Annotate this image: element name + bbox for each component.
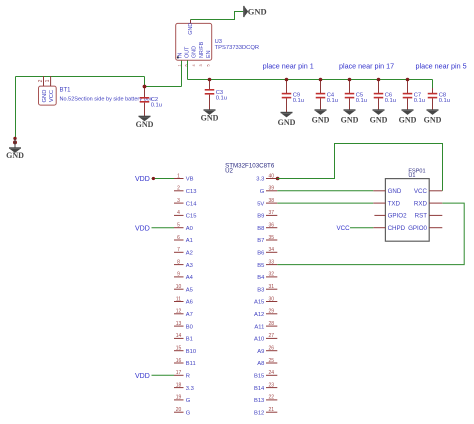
pin 5 A0 bbox=[174, 223, 193, 232]
svg-text:24: 24 bbox=[269, 370, 275, 376]
svg-text:4: 4 bbox=[192, 64, 196, 66]
pin RST bbox=[415, 213, 443, 220]
pin 39 G bbox=[260, 186, 278, 195]
svg-text:U2: U2 bbox=[225, 168, 233, 175]
svg-text:0.1u: 0.1u bbox=[151, 102, 162, 108]
pin 22 B13 bbox=[254, 395, 277, 404]
svg-text:16: 16 bbox=[176, 358, 182, 364]
pin 28 A11 bbox=[254, 321, 277, 330]
svg-text:9: 9 bbox=[177, 272, 180, 278]
svg-text:A11: A11 bbox=[254, 324, 264, 330]
svg-text:A7: A7 bbox=[186, 312, 193, 318]
svg-text:32: 32 bbox=[269, 272, 275, 278]
wire bbox=[16, 76, 145, 78]
capacitor C7 bbox=[403, 80, 425, 111]
pin 17 R bbox=[174, 370, 190, 379]
svg-text:0.1u: 0.1u bbox=[293, 98, 304, 104]
ground bbox=[136, 116, 154, 129]
svg-text:A10: A10 bbox=[254, 337, 264, 343]
wire bbox=[187, 60, 189, 79]
pin 10 A5 bbox=[174, 284, 193, 293]
svg-text:A9: A9 bbox=[257, 349, 264, 355]
pin TXD bbox=[373, 200, 400, 207]
svg-text:RXD: RXD bbox=[414, 200, 428, 207]
svg-text:OUT: OUT bbox=[185, 46, 191, 58]
svg-text:35: 35 bbox=[269, 235, 275, 241]
capacitor C9 bbox=[282, 80, 304, 113]
capacitor C3 bbox=[205, 80, 227, 111]
battery BT1 bbox=[38, 76, 153, 105]
svg-text:5: 5 bbox=[206, 64, 210, 66]
junction bbox=[319, 78, 323, 82]
svg-text:18: 18 bbox=[176, 382, 182, 388]
pin 37 B9 bbox=[257, 210, 277, 219]
svg-text:GND: GND bbox=[6, 151, 24, 160]
wire pin40 to ESP VCC bbox=[277, 144, 442, 191]
svg-text:G: G bbox=[186, 410, 191, 416]
svg-text:19: 19 bbox=[176, 395, 182, 401]
wire bbox=[152, 374, 175, 376]
pin 31 B3 bbox=[257, 284, 277, 293]
svg-text:NR/FB: NR/FB bbox=[199, 41, 205, 58]
junction bbox=[276, 177, 280, 181]
svg-text:22: 22 bbox=[269, 395, 275, 401]
svg-text:A3: A3 bbox=[186, 263, 193, 269]
pin 25 A8 bbox=[257, 358, 277, 367]
wire pin38 to ESP TXD bbox=[277, 202, 373, 204]
junction bbox=[406, 78, 410, 82]
wire bbox=[152, 178, 175, 180]
svg-text:3: 3 bbox=[177, 198, 180, 204]
svg-text:GND: GND bbox=[201, 113, 219, 122]
svg-text:39: 39 bbox=[269, 186, 275, 192]
svg-text:25: 25 bbox=[269, 358, 275, 364]
svg-text:6: 6 bbox=[185, 64, 189, 66]
svg-text:EN: EN bbox=[206, 50, 212, 58]
pin 12 A7 bbox=[174, 309, 193, 318]
svg-text:6: 6 bbox=[177, 235, 180, 241]
svg-text:C14: C14 bbox=[186, 201, 197, 207]
pin 29 A12 bbox=[254, 309, 277, 318]
capacitor C8 bbox=[428, 88, 450, 110]
wire ESP RXD to pin33 B5 bbox=[277, 203, 464, 265]
svg-text:place near pin 5: place near pin 5 bbox=[416, 61, 467, 70]
svg-text:GND: GND bbox=[312, 116, 330, 125]
junction bbox=[152, 177, 155, 180]
svg-text:VB: VB bbox=[186, 177, 194, 183]
pin 14 B1 bbox=[174, 333, 193, 342]
svg-text:A2: A2 bbox=[186, 251, 193, 257]
svg-text:12: 12 bbox=[176, 309, 182, 315]
svg-text:B14: B14 bbox=[254, 386, 265, 392]
svg-text:place near pin 17: place near pin 17 bbox=[339, 61, 394, 70]
pin 18 3.3 bbox=[174, 382, 194, 391]
svg-text:GND: GND bbox=[399, 116, 417, 125]
wire rail bbox=[188, 79, 433, 81]
svg-text:27: 27 bbox=[269, 333, 275, 339]
svg-text:A0: A0 bbox=[186, 226, 193, 232]
pin VCC bbox=[414, 188, 442, 195]
wire bbox=[15, 77, 17, 138]
svg-text:B4: B4 bbox=[257, 275, 265, 281]
svg-text:31: 31 bbox=[269, 284, 275, 290]
svg-text:B8: B8 bbox=[257, 226, 264, 232]
junction bbox=[348, 78, 352, 82]
svg-text:21: 21 bbox=[269, 407, 275, 413]
svg-text:VCC: VCC bbox=[49, 90, 55, 102]
pin 33 B5 bbox=[257, 259, 277, 268]
svg-text:B15: B15 bbox=[254, 374, 264, 380]
wire bbox=[145, 86, 182, 88]
svg-text:A12: A12 bbox=[254, 312, 264, 318]
svg-text:1: 1 bbox=[45, 79, 51, 82]
svg-text:0.1u: 0.1u bbox=[439, 98, 450, 104]
svg-text:37: 37 bbox=[269, 210, 275, 216]
pin 13 B0 bbox=[174, 321, 193, 330]
ground bbox=[341, 109, 359, 124]
svg-text:34: 34 bbox=[269, 247, 275, 253]
svg-text:17: 17 bbox=[176, 370, 182, 376]
svg-text:33: 33 bbox=[269, 259, 275, 265]
svg-text:VDD: VDD bbox=[135, 225, 150, 232]
pin 27 A10 bbox=[254, 333, 277, 342]
svg-text:3: 3 bbox=[199, 64, 203, 66]
svg-text:36: 36 bbox=[269, 223, 275, 229]
svg-text:23: 23 bbox=[269, 382, 275, 388]
pin 35 B7 bbox=[257, 235, 277, 244]
pin 21 B12 bbox=[254, 407, 277, 416]
svg-text:B9: B9 bbox=[257, 214, 264, 220]
svg-text:4: 4 bbox=[177, 210, 180, 216]
svg-text:GND: GND bbox=[42, 90, 48, 103]
svg-text:40: 40 bbox=[269, 173, 275, 179]
junction bbox=[208, 78, 212, 82]
pin 20 G bbox=[174, 407, 191, 416]
svg-text:U1: U1 bbox=[408, 173, 415, 179]
svg-text:GPIO0: GPIO0 bbox=[408, 225, 427, 232]
wire bbox=[152, 227, 175, 229]
pin 24 B15 bbox=[254, 370, 277, 379]
svg-text:IN: IN bbox=[177, 53, 183, 58]
capacitor C5 bbox=[345, 80, 367, 111]
pin 2 C13 bbox=[174, 186, 196, 195]
svg-text:13: 13 bbox=[176, 321, 182, 327]
svg-text:0.1u: 0.1u bbox=[385, 98, 396, 104]
svg-text:No.52Section side by side batt: No.52Section side by side battery box bbox=[60, 97, 153, 103]
pin CHPD bbox=[373, 225, 405, 232]
svg-text:GND: GND bbox=[278, 118, 296, 127]
wire bbox=[432, 80, 434, 89]
op-amp U3 regulator TPS73733DCQR bbox=[176, 20, 212, 61]
svg-text:B3: B3 bbox=[257, 287, 264, 293]
svg-text:B6: B6 bbox=[257, 251, 264, 257]
svg-text:TPS73733DCQR: TPS73733DCQR bbox=[215, 45, 259, 51]
svg-text:30: 30 bbox=[269, 296, 275, 302]
svg-text:GND: GND bbox=[370, 116, 388, 125]
svg-text:R: R bbox=[186, 374, 190, 380]
pin 40 3.3 bbox=[256, 173, 277, 182]
pin 26 A9 bbox=[257, 346, 277, 355]
svg-text:0.1u: 0.1u bbox=[216, 95, 227, 101]
svg-text:place near pin 1: place near pin 1 bbox=[263, 61, 314, 70]
pin 8 A3 bbox=[174, 259, 193, 268]
ground bbox=[243, 6, 266, 17]
svg-text:3.3: 3.3 bbox=[256, 177, 264, 183]
wire bbox=[144, 77, 146, 87]
svg-text:5: 5 bbox=[177, 223, 180, 229]
pin 11 A6 bbox=[174, 296, 193, 305]
svg-text:15: 15 bbox=[176, 346, 182, 352]
ground bbox=[399, 109, 417, 124]
svg-text:38: 38 bbox=[269, 198, 275, 204]
svg-text:VDD: VDD bbox=[135, 373, 150, 380]
svg-text:10: 10 bbox=[176, 284, 182, 290]
svg-text:CHPD: CHPD bbox=[388, 225, 406, 232]
svg-text:GND: GND bbox=[388, 188, 402, 195]
pin 23 B14 bbox=[254, 382, 277, 391]
svg-text:0.1u: 0.1u bbox=[414, 98, 425, 104]
svg-text:14: 14 bbox=[176, 333, 182, 339]
svg-text:29: 29 bbox=[269, 309, 275, 315]
junction bbox=[143, 85, 147, 89]
svg-text:B1: B1 bbox=[186, 337, 193, 343]
svg-text:C13: C13 bbox=[186, 189, 197, 195]
junction bbox=[285, 78, 289, 82]
svg-text:G: G bbox=[186, 398, 191, 404]
capacitor C4 bbox=[316, 80, 338, 111]
svg-text:GND: GND bbox=[192, 46, 198, 58]
svg-text:1: 1 bbox=[177, 173, 180, 179]
svg-text:7: 7 bbox=[177, 247, 180, 253]
junction bbox=[377, 78, 381, 82]
svg-text:VDD: VDD bbox=[135, 176, 150, 183]
pin 1 VB bbox=[174, 173, 194, 182]
pin 4 C15 bbox=[174, 210, 196, 219]
svg-text:BT1: BT1 bbox=[60, 88, 72, 94]
wire bbox=[350, 227, 373, 229]
svg-text:VCC: VCC bbox=[337, 225, 351, 232]
pin 9 A4 bbox=[174, 272, 194, 281]
svg-text:8: 8 bbox=[177, 259, 180, 265]
svg-text:B0: B0 bbox=[186, 324, 193, 330]
svg-text:B10: B10 bbox=[186, 349, 196, 355]
svg-text:GND: GND bbox=[424, 116, 442, 125]
pin RXD bbox=[414, 200, 442, 207]
pin 15 B10 bbox=[174, 346, 196, 355]
pin 3 C14 bbox=[174, 198, 197, 207]
pin GND bbox=[373, 188, 402, 195]
svg-text:3.3: 3.3 bbox=[186, 386, 194, 392]
svg-text:11: 11 bbox=[176, 296, 181, 302]
svg-text:A4: A4 bbox=[186, 275, 194, 281]
svg-text:0.1u: 0.1u bbox=[327, 98, 338, 104]
svg-text:VCC: VCC bbox=[414, 188, 428, 195]
svg-text:GPIO2: GPIO2 bbox=[388, 213, 407, 220]
pin 38 5V bbox=[257, 198, 277, 207]
svg-text:2: 2 bbox=[38, 79, 44, 82]
svg-text:C15: C15 bbox=[186, 214, 197, 220]
svg-text:26: 26 bbox=[269, 346, 275, 352]
svg-text:B13: B13 bbox=[254, 398, 264, 404]
ground bbox=[278, 112, 296, 127]
svg-text:A5: A5 bbox=[186, 287, 193, 293]
svg-text:B7: B7 bbox=[257, 238, 264, 244]
pin 16 B11 bbox=[174, 358, 196, 367]
pin 7 A2 bbox=[174, 247, 193, 256]
ground bbox=[6, 137, 24, 160]
pin GPIO0 bbox=[408, 225, 442, 232]
ground bbox=[201, 109, 219, 122]
mcu U2 STM32F103C8T6 bbox=[225, 163, 275, 175]
svg-text:1: 1 bbox=[178, 64, 182, 66]
svg-text:5V: 5V bbox=[257, 201, 264, 207]
pin 6 A1 bbox=[174, 235, 193, 244]
junction bbox=[143, 85, 147, 89]
ground bbox=[370, 109, 388, 124]
wire pin39 to ESP GND bbox=[277, 190, 373, 192]
svg-text:GND: GND bbox=[136, 120, 154, 129]
wire bbox=[191, 12, 244, 20]
svg-text:G: G bbox=[260, 189, 265, 195]
module U1 ESP01 bbox=[385, 168, 429, 241]
svg-text:B5: B5 bbox=[257, 263, 264, 269]
svg-text:GND: GND bbox=[188, 23, 194, 35]
pin 32 B4 bbox=[257, 272, 277, 281]
capacitor C2 bbox=[140, 87, 162, 117]
svg-text:20: 20 bbox=[176, 407, 182, 413]
svg-text:B12: B12 bbox=[254, 410, 264, 416]
wire bbox=[181, 60, 183, 86]
ground bbox=[424, 109, 442, 124]
svg-text:A15: A15 bbox=[254, 300, 264, 306]
ground bbox=[312, 109, 330, 124]
svg-text:TXD: TXD bbox=[388, 200, 401, 207]
svg-text:B11: B11 bbox=[186, 361, 196, 367]
svg-text:RST: RST bbox=[415, 213, 428, 220]
pin 19 G bbox=[174, 395, 191, 404]
pin 34 B6 bbox=[257, 247, 277, 256]
svg-text:28: 28 bbox=[269, 321, 275, 327]
pin GPIO2 bbox=[374, 213, 407, 220]
svg-text:0.1u: 0.1u bbox=[356, 98, 367, 104]
pin 36 B8 bbox=[257, 223, 277, 232]
svg-text:A6: A6 bbox=[186, 300, 193, 306]
svg-text:A1: A1 bbox=[186, 238, 193, 244]
svg-text:2: 2 bbox=[177, 186, 180, 192]
pin 30 A15 bbox=[254, 296, 277, 305]
svg-text:GND: GND bbox=[248, 6, 267, 16]
svg-text:GND: GND bbox=[341, 116, 359, 125]
svg-text:A8: A8 bbox=[257, 361, 264, 367]
capacitor C6 bbox=[374, 80, 396, 111]
